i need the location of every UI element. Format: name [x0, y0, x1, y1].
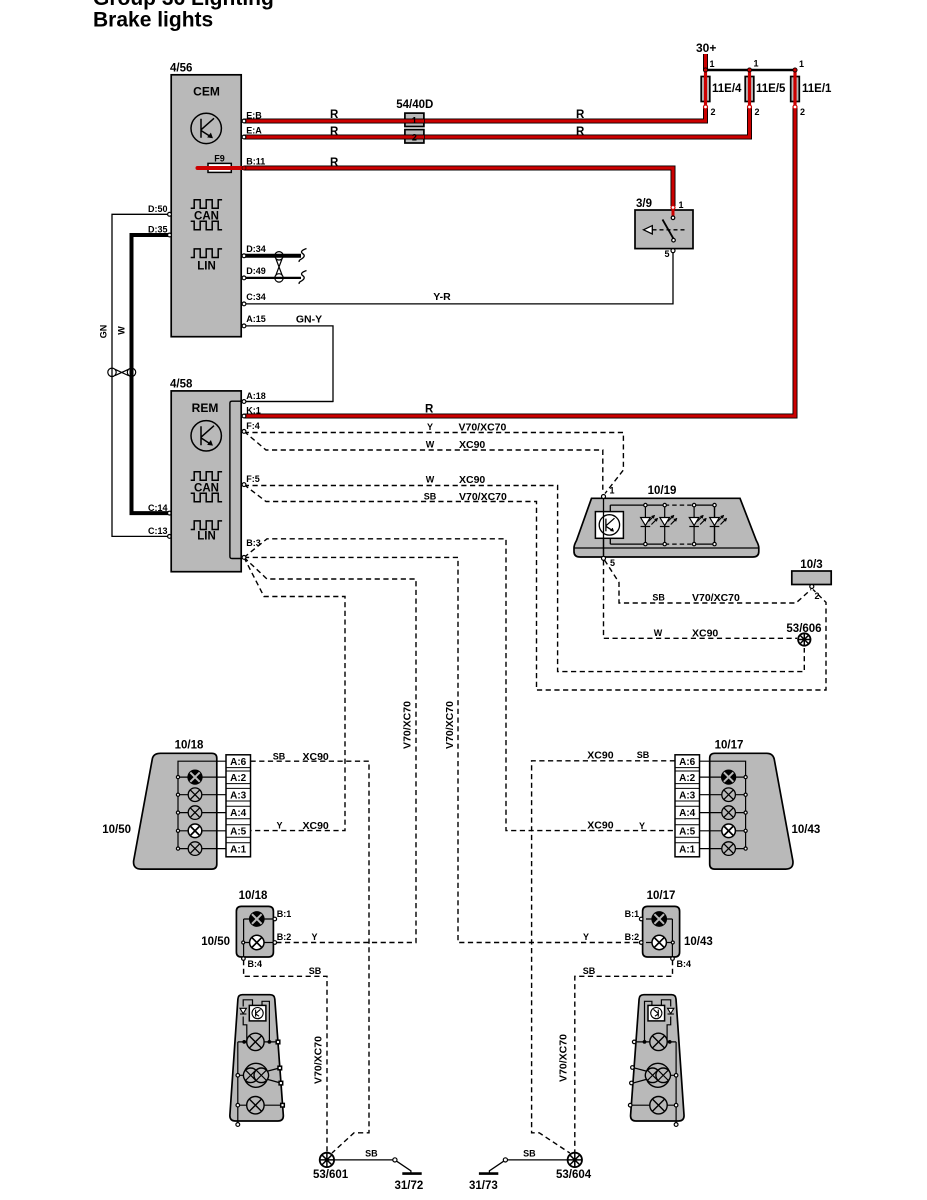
right lamp connector strip — [675, 755, 700, 857]
pin E:A — [242, 135, 246, 139]
svg-text:1: 1 — [610, 486, 615, 496]
svg-text:REM: REM — [192, 401, 219, 415]
fuse 11E/5 — [745, 72, 786, 105]
wire B:3 branch to right lamp B:2 — [244, 557, 639, 942]
svg-text:R: R — [330, 109, 339, 121]
svg-text:A:2: A:2 — [679, 773, 696, 784]
right lamp bulb A:5 (bold) — [722, 824, 736, 838]
pin C:34 — [242, 302, 246, 306]
lamp 10/19 high mounted brake light body — [574, 498, 759, 557]
svg-text:2: 2 — [800, 107, 805, 117]
svg-text:A:3: A:3 — [679, 790, 696, 801]
svg-text:30+: 30+ — [696, 41, 716, 55]
left lamp connector strip — [226, 755, 251, 857]
pin 5 of 10/19 and wires — [602, 556, 606, 560]
pin B:3 — [242, 556, 246, 560]
svg-text:10/50: 10/50 — [201, 936, 230, 948]
REM K-symbol — [191, 421, 221, 451]
rear lamp cluster left body — [230, 995, 283, 1121]
svg-text:W: W — [426, 475, 435, 485]
wire E:B to 11E/4 pin2 (red) — [244, 107, 706, 121]
svg-text:10/17: 10/17 — [715, 740, 744, 752]
wire 53/604 to ground 31/73 — [508, 1159, 567, 1161]
pin B:4 left — [242, 957, 246, 961]
svg-text:XC90: XC90 — [587, 819, 613, 831]
svg-text:3/9: 3/9 — [636, 198, 652, 210]
10/19 LED 4 — [710, 503, 727, 545]
svg-text:D:35: D:35 — [148, 225, 168, 235]
wire left lamp A:6 SB XC90 to 53/601 — [251, 761, 370, 1153]
cluster right terminals — [632, 1040, 636, 1044]
svg-text:B:2: B:2 — [625, 932, 640, 942]
pin 1 of 11E/1 — [793, 68, 797, 72]
small left bulb B:1 (filled) — [250, 912, 264, 926]
lamp 10/18 small left body — [236, 906, 273, 957]
wire D:50 GN loop to C:13 — [112, 214, 169, 536]
pin B:1 right — [639, 917, 643, 921]
svg-text:R: R — [576, 109, 585, 121]
10/19 LED 1 — [641, 503, 658, 545]
pin C:14 — [168, 511, 172, 515]
cluster right bulb 3 — [650, 1097, 667, 1114]
ground symbol 31/73 — [479, 1172, 498, 1175]
svg-text:F9: F9 — [214, 154, 225, 164]
svg-text:C:14: C:14 — [148, 503, 168, 513]
rear lamp cluster right body — [631, 995, 684, 1121]
svg-text:31/73: 31/73 — [469, 1180, 498, 1192]
pin B:1 left — [273, 917, 277, 921]
svg-text:SB: SB — [273, 751, 286, 761]
svg-text:A:2: A:2 — [230, 773, 247, 784]
pin C:13 — [168, 535, 172, 539]
cluster right internal wiring — [632, 1000, 676, 1124]
svg-text:11E/5: 11E/5 — [756, 83, 786, 95]
wire right lamp A:6 SB XC90 to 53/604 — [532, 761, 675, 1153]
wire E:A to 11E/5 pin2 (red) — [244, 107, 750, 137]
svg-text:A:15: A:15 — [246, 314, 266, 324]
cluster left diode — [240, 1008, 246, 1014]
svg-text:W: W — [117, 326, 127, 335]
svg-text:V70/XC70: V70/XC70 — [692, 592, 740, 604]
svg-text:V70/XC70: V70/XC70 — [459, 491, 507, 503]
svg-text:A:4: A:4 — [679, 808, 696, 819]
fuse 11E/1 — [791, 72, 832, 105]
svg-text:A:4: A:4 — [230, 808, 247, 819]
svg-text:A:5: A:5 — [230, 827, 247, 838]
svg-text:Y-R: Y-R — [433, 291, 451, 303]
wire B:3 branch to right lamp A:5 — [244, 539, 675, 831]
ECU CEM 4/56 box — [171, 75, 241, 337]
svg-text:C:34: C:34 — [246, 292, 266, 302]
pin D:35 — [168, 233, 172, 237]
svg-text:A:1: A:1 — [679, 845, 696, 856]
pin 1 of 10/19 — [603, 511, 605, 556]
svg-text:1: 1 — [799, 59, 804, 69]
cluster left bulb 1 — [242, 1033, 271, 1050]
svg-text:5: 5 — [664, 249, 669, 259]
wire power bus — [706, 69, 796, 72]
pin 1 of 11E/4 — [703, 68, 707, 72]
svg-text:2: 2 — [412, 133, 417, 143]
small left bulb B:2 — [250, 935, 264, 949]
pin 2 of 11E/5 — [748, 105, 752, 109]
small right internal wiring — [646, 919, 674, 958]
svg-text:V70/XC70: V70/XC70 — [444, 701, 456, 749]
svg-text:10/18: 10/18 — [175, 740, 204, 752]
REM CAN symbol — [191, 472, 222, 502]
svg-text:CAN: CAN — [194, 482, 219, 494]
svg-text:D:34: D:34 — [246, 244, 266, 254]
svg-text:XC90: XC90 — [459, 474, 485, 486]
wire D:35 W loop to C:14 — [132, 235, 170, 513]
svg-text:11E/1: 11E/1 — [802, 83, 832, 95]
left lamp internal wiring — [176, 761, 226, 850]
cluster left bulb 3 — [247, 1097, 264, 1114]
svg-text:GN: GN — [99, 325, 109, 339]
pin E:B — [242, 119, 246, 123]
svg-text:SB: SB — [424, 492, 437, 502]
connector 54/40D box 1 — [405, 113, 424, 126]
REM connector bracket — [230, 401, 241, 558]
pin 2 of 11E/4 — [704, 105, 708, 109]
break curl D:49 — [299, 271, 306, 284]
twisted pair symbol GN/W — [108, 368, 136, 376]
right lamp bulb A:2 (filled) — [722, 770, 736, 784]
svg-text:LIN: LIN — [197, 530, 216, 542]
svg-text:C:13: C:13 — [148, 526, 168, 536]
svg-text:XC90: XC90 — [303, 751, 329, 763]
svg-text:B:11: B:11 — [246, 156, 265, 166]
svg-text:53/604: 53/604 — [556, 1169, 592, 1181]
svg-text:10/50: 10/50 — [102, 824, 131, 836]
svg-text:10/43: 10/43 — [684, 936, 713, 948]
cluster right bulb 2 double — [645, 1063, 670, 1087]
pin D:34 — [242, 254, 246, 258]
cluster left terminals — [236, 1074, 240, 1078]
pin 2 of 10/3 — [810, 585, 814, 589]
wire B:3 branch to left lamp A:5 — [244, 557, 345, 830]
svg-text:11E/4: 11E/4 — [712, 83, 742, 95]
svg-text:XC90: XC90 — [459, 439, 485, 451]
wire K:1 to 11E/1 pin2 (red) — [244, 107, 795, 416]
CEM K-symbol — [191, 113, 221, 143]
pin 1 of 11E/5 — [747, 68, 751, 72]
svg-text:R: R — [425, 404, 434, 416]
svg-text:10/19: 10/19 — [648, 485, 677, 497]
10/19 K-box — [595, 512, 623, 539]
CEM CAN symbol — [191, 200, 222, 230]
svg-text:XC90: XC90 — [587, 750, 613, 762]
svg-text:SB: SB — [365, 1149, 378, 1159]
pin A:18 — [242, 400, 246, 404]
wire C:34 Y-R to 3/9 pin5 — [244, 253, 673, 304]
svg-text:A:1: A:1 — [230, 845, 247, 856]
REM LIN symbol — [191, 521, 222, 530]
pin B:2 right — [639, 941, 643, 945]
ground terminal 53/601 — [320, 1153, 334, 1167]
left lamp bulb A:1 — [188, 842, 202, 856]
svg-text:Y: Y — [583, 932, 589, 942]
wire right B:4 SB to 53/604 — [575, 960, 673, 1152]
left lamp bulb A:2 (tail/brake, filled) — [188, 770, 202, 784]
small right bulb B:2 — [652, 935, 666, 949]
svg-text:XC90: XC90 — [692, 628, 718, 640]
lamp 10/17 small right body — [643, 906, 680, 957]
wire left B:4 SB to 53/601 — [244, 960, 327, 1152]
right lamp bulb A:3 — [722, 788, 736, 802]
right lamp internal wiring — [700, 761, 748, 850]
svg-text:Y: Y — [276, 820, 282, 830]
svg-text:SB: SB — [583, 966, 596, 976]
wire pin5 W XC90 to 53/606 — [604, 560, 798, 638]
svg-text:5: 5 — [610, 558, 615, 568]
svg-text:B:1: B:1 — [277, 909, 292, 919]
pin 2 of 11E/1 — [793, 105, 797, 109]
pin A:15 — [242, 324, 246, 328]
left connector cells — [230, 757, 247, 856]
svg-text:SB: SB — [523, 1149, 536, 1159]
svg-text:V70/XC70: V70/XC70 — [313, 1036, 325, 1084]
svg-text:SB: SB — [637, 750, 650, 760]
cluster right K-box — [648, 1005, 665, 1021]
wire pin5 SB V70/XC70 to 10/3 pin2 — [605, 560, 812, 603]
svg-text:V70/XC70: V70/XC70 — [459, 422, 507, 434]
svg-text:2: 2 — [755, 107, 760, 117]
pin D:49 — [242, 276, 246, 280]
svg-text:SB: SB — [652, 593, 665, 603]
ground symbol 31/72 — [402, 1172, 421, 1175]
wire B:11 to 3/9 pin1 (red) — [244, 168, 673, 206]
wire F:4 W XC90 to 10/19 pin1 — [244, 431, 603, 493]
svg-text:D:49: D:49 — [246, 266, 266, 276]
svg-text:Y: Y — [639, 821, 645, 831]
wire D:49 stub — [244, 277, 301, 279]
wire F:5 SB V70/XC70 to 10/3 pin2 — [244, 485, 826, 690]
svg-text:53/601: 53/601 — [313, 1169, 349, 1181]
10/19 LED 2 — [660, 503, 677, 545]
svg-text:54/40D: 54/40D — [396, 99, 433, 111]
10/19 LED 3 — [689, 503, 706, 545]
cluster left bulb 2 double — [243, 1063, 268, 1087]
pin F:4 — [242, 430, 246, 434]
cluster left internal wiring — [238, 1000, 282, 1124]
small left internal wiring — [242, 919, 274, 958]
svg-text:F:4: F:4 — [246, 421, 259, 431]
svg-text:1: 1 — [679, 200, 684, 210]
wire B:3 branch to left lamp B:2 — [244, 557, 416, 942]
right lamp bulb A:4 — [722, 806, 736, 820]
svg-text:CEM: CEM — [193, 85, 220, 99]
pin B:4 right — [671, 957, 675, 961]
pin B:2 left — [273, 941, 277, 945]
svg-text:XC90: XC90 — [303, 820, 329, 832]
right connector cells — [679, 757, 696, 856]
fuse 11E/4 — [701, 72, 742, 105]
svg-text:10/18: 10/18 — [239, 890, 268, 902]
small right bulb B:1 (filled) — [652, 912, 666, 926]
wire D:34 stub — [244, 254, 301, 258]
svg-text:10/3: 10/3 — [800, 559, 822, 571]
cluster right bulb 1 — [643, 1033, 672, 1050]
svg-text:E:A: E:A — [246, 126, 262, 136]
svg-text:B:2: B:2 — [277, 932, 292, 942]
svg-text:A:5: A:5 — [679, 827, 696, 838]
wire A:15 GN-Y to A:18 — [244, 326, 333, 402]
svg-text:Y: Y — [311, 932, 317, 942]
wire F:5 W XC90 to 53/606 — [244, 485, 804, 672]
svg-text:A:6: A:6 — [230, 757, 247, 768]
svg-text:1: 1 — [754, 59, 759, 69]
svg-text:10/43: 10/43 — [792, 824, 821, 836]
svg-text:W: W — [654, 628, 663, 638]
wire A:18 stub — [244, 401, 333, 403]
svg-text:R: R — [576, 126, 585, 138]
svg-text:B:4: B:4 — [248, 959, 263, 969]
pin B:11 — [242, 166, 246, 170]
svg-text:B:3: B:3 — [246, 538, 261, 548]
cluster left K-box — [249, 1005, 266, 1021]
svg-text:R: R — [330, 157, 339, 169]
svg-text:Brake lights: Brake lights — [93, 9, 213, 32]
svg-text:R: R — [330, 126, 339, 138]
svg-text:Y: Y — [427, 422, 433, 432]
svg-text:A:18: A:18 — [246, 391, 266, 401]
ECU REM 4/58 box — [171, 391, 241, 572]
svg-text:B:4: B:4 — [677, 959, 692, 969]
svg-text:A:3: A:3 — [230, 790, 247, 801]
pin D:50 — [168, 212, 172, 216]
pin K:1 — [242, 414, 246, 418]
10/19 internal bus — [604, 497, 715, 556]
svg-text:A:6: A:6 — [679, 757, 696, 768]
svg-text:2: 2 — [815, 591, 820, 601]
wire 53/601 to ground 31/72 — [335, 1159, 393, 1161]
svg-text:E:B: E:B — [246, 110, 262, 120]
svg-text:4/58: 4/58 — [170, 379, 193, 391]
svg-text:31/72: 31/72 — [395, 1180, 424, 1192]
wire 30+ feed (red) — [703, 54, 708, 70]
svg-text:1: 1 — [710, 59, 715, 69]
connector 54/40D box 2 — [405, 130, 424, 143]
break curl D:34 — [299, 249, 306, 262]
left lamp bulb A:4 — [188, 806, 202, 820]
ground terminal 53/604 — [568, 1153, 582, 1167]
svg-text:10/17: 10/17 — [647, 890, 676, 902]
left lamp bulb A:5 (brake, bold) — [188, 824, 202, 838]
svg-text:W: W — [426, 440, 435, 450]
right lamp bulb A:1 — [722, 842, 736, 856]
CEM LIN symbol — [191, 249, 222, 258]
svg-text:K:1: K:1 — [246, 405, 261, 415]
cluster right diode — [668, 1008, 674, 1014]
wire F:4 Y V70/XC70 to 10/19 pin1 — [244, 431, 623, 493]
svg-text:2: 2 — [711, 107, 716, 117]
svg-text:B:1: B:1 — [625, 909, 640, 919]
twisted pair symbol D:34/D:49 — [275, 252, 283, 282]
svg-text:V70/XC70: V70/XC70 — [558, 1034, 570, 1082]
pin F:5 — [242, 483, 246, 487]
svg-text:GN-Y: GN-Y — [296, 314, 322, 326]
svg-text:D:50: D:50 — [148, 204, 168, 214]
left lamp bulb A:3 — [188, 788, 202, 802]
svg-text:V70/XC70: V70/XC70 — [402, 701, 414, 749]
svg-text:4/56: 4/56 — [170, 63, 192, 75]
lamp 10/17 right tail body — [710, 753, 793, 869]
svg-text:LIN: LIN — [197, 260, 216, 272]
svg-text:CAN: CAN — [194, 210, 219, 222]
svg-text:1: 1 — [412, 116, 417, 126]
svg-text:SB: SB — [309, 966, 322, 976]
svg-text:F:5: F:5 — [246, 474, 259, 484]
lamp 10/18 left tail body — [134, 753, 217, 869]
